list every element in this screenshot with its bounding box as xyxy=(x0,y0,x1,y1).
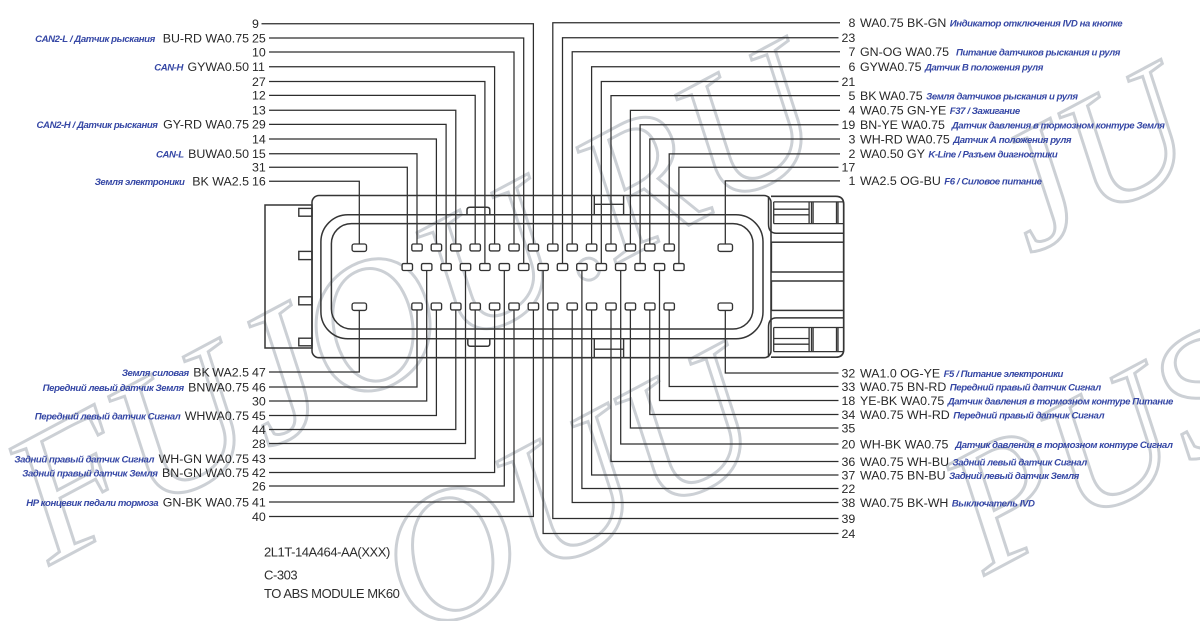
svg-text:CAN-H: CAN-H xyxy=(154,63,184,74)
svg-text:21: 21 xyxy=(842,75,856,89)
svg-text:2L1T-14A464-AA(XXX): 2L1T-14A464-AA(XXX) xyxy=(264,545,390,560)
wire pin 22 xyxy=(582,271,839,489)
svg-text:14: 14 xyxy=(252,132,266,146)
svg-text:GN-OG WA0.75: GN-OG WA0.75 xyxy=(860,45,949,59)
svg-text:17: 17 xyxy=(842,161,856,175)
wire pin 40 xyxy=(269,310,533,516)
wire pin 42 xyxy=(269,310,495,472)
wire pin 12 xyxy=(269,95,475,244)
wire pin 28 xyxy=(269,271,466,444)
wire pin 43 xyxy=(269,310,475,458)
pin 18 xyxy=(654,264,664,271)
svg-text:CAN2-L / Датчик рыскания: CAN2-L / Датчик рыскания xyxy=(35,34,155,45)
wire pin 31 xyxy=(269,167,407,263)
svg-text:35: 35 xyxy=(842,421,856,435)
svg-text:HP концевик педали тормоза: HP концевик педали тормоза xyxy=(26,498,159,509)
right latch bottom box 1 xyxy=(774,328,809,352)
pin 29 xyxy=(441,264,451,271)
wire pin 25 xyxy=(269,38,524,264)
pin 17 xyxy=(674,264,684,271)
left block tab 1 xyxy=(299,208,312,216)
wire pin 6 xyxy=(592,67,840,244)
wire pin 21 xyxy=(601,82,838,264)
svg-text:44: 44 xyxy=(252,423,266,437)
svg-text:Задний левый датчик Сигнал: Задний левый датчик Сигнал xyxy=(953,457,1088,468)
pin 38 xyxy=(567,303,577,310)
svg-text:GYWA0.50: GYWA0.50 xyxy=(187,60,249,74)
svg-text:20: 20 xyxy=(842,437,856,451)
top bridge key xyxy=(594,196,623,215)
pin 13 xyxy=(451,244,461,251)
svg-text:43: 43 xyxy=(252,452,266,466)
right latch top box 2 xyxy=(812,202,839,224)
svg-text:8: 8 xyxy=(849,16,856,30)
wire pin 3 xyxy=(650,139,840,244)
pin 20 xyxy=(616,264,626,271)
svg-text:WA0.75 BK-GN: WA0.75 BK-GN xyxy=(860,16,946,30)
wire pin 36 xyxy=(611,310,839,461)
wire pin 1 xyxy=(725,181,840,244)
svg-text:15: 15 xyxy=(252,147,266,161)
wire pin 32 xyxy=(725,310,838,373)
right latch bottom band inner xyxy=(774,328,844,352)
svg-text:Земля датчиков рыскания и руля: Земля датчиков рыскания и руля xyxy=(926,91,1078,102)
pin 35 xyxy=(625,303,635,310)
svg-text:WA0.75 GN-YE: WA0.75 GN-YE xyxy=(860,104,946,118)
connector C-303 left keying block xyxy=(265,205,312,348)
svg-text:25: 25 xyxy=(252,31,266,45)
svg-text:Передний правый датчик Сигнал: Передний правый датчик Сигнал xyxy=(950,382,1101,393)
svg-text:F37 / Зажигание: F37 / Зажигание xyxy=(950,106,1021,117)
pin 7 xyxy=(567,244,577,251)
wire pin 46 xyxy=(269,310,417,387)
svg-text:30: 30 xyxy=(252,394,266,408)
pin 15 xyxy=(412,244,422,251)
pin 39 xyxy=(548,303,558,310)
svg-text:Датчик давления в тормозном ко: Датчик давления в тормозном контуре Земл… xyxy=(951,121,1165,132)
wire pin 26 xyxy=(269,271,504,486)
pin 28 xyxy=(460,264,470,271)
svg-text:19: 19 xyxy=(842,118,856,132)
svg-text:WA0.75 WH-BU: WA0.75 WH-BU xyxy=(860,455,949,469)
svg-text:BK WA0.75: BK WA0.75 xyxy=(860,89,923,103)
svg-text:Питание датчиков рыскания и ру: Питание датчиков рыскания и руля xyxy=(956,48,1121,59)
wire pin 34 xyxy=(650,310,839,414)
svg-text:BU-RD WA0.75: BU-RD WA0.75 xyxy=(163,31,249,45)
svg-text:Передний левый датчик Земля: Передний левый датчик Земля xyxy=(43,383,185,394)
svg-text:WH-GN WA0.75: WH-GN WA0.75 xyxy=(159,452,250,466)
wire pin 17 xyxy=(679,167,839,263)
pin 12 xyxy=(470,244,480,251)
pin 26 xyxy=(499,264,509,271)
wire pin 15 xyxy=(269,154,417,244)
svg-text:27: 27 xyxy=(252,75,266,89)
svg-text:37: 37 xyxy=(842,468,856,482)
pin 21 xyxy=(596,264,606,271)
svg-text:TO ABS MODULE MK60: TO ABS MODULE MK60 xyxy=(264,586,400,601)
svg-text:F5 / Питание электроники: F5 / Питание электроники xyxy=(944,369,1064,380)
svg-text:C-303: C-303 xyxy=(264,568,297,583)
wire pin 11 xyxy=(269,67,495,244)
svg-text:23: 23 xyxy=(842,31,856,45)
wire pin 9 xyxy=(262,24,534,244)
pin 41 xyxy=(509,303,519,310)
wire pin 13 xyxy=(269,110,456,244)
svg-text:Задний левый датчик Земля: Задний левый датчик Земля xyxy=(949,471,1080,482)
left block tab 2 xyxy=(299,251,312,259)
pin 36 xyxy=(606,303,616,310)
right latch top band left edge xyxy=(769,196,844,233)
pin 2 xyxy=(664,244,674,251)
wire pin 37 xyxy=(592,310,839,475)
svg-text:13: 13 xyxy=(252,104,266,118)
svg-text:32: 32 xyxy=(842,366,856,380)
wire pin 24 xyxy=(543,271,838,534)
svg-text:F6 / Силовое питание: F6 / Силовое питание xyxy=(944,177,1042,188)
svg-text:BK WA2.5: BK WA2.5 xyxy=(193,365,249,379)
svg-text:BNWA0.75: BNWA0.75 xyxy=(188,380,249,394)
pin 11 xyxy=(489,244,499,251)
wire pin 10 xyxy=(269,52,514,244)
pin 34 xyxy=(645,303,655,310)
svg-text:2: 2 xyxy=(849,147,856,161)
svg-text:Передний правый датчик Сигнал: Передний правый датчик Сигнал xyxy=(953,410,1104,421)
svg-text:WH-RD WA0.75: WH-RD WA0.75 xyxy=(860,132,950,146)
pin 4 xyxy=(625,244,635,251)
pin 33 xyxy=(664,303,674,310)
pin 31 xyxy=(402,264,412,271)
pin 32 xyxy=(718,303,732,310)
svg-text:BN-GN WA0.75: BN-GN WA0.75 xyxy=(162,466,249,480)
svg-text:47: 47 xyxy=(252,365,266,379)
right latch slot 2 xyxy=(771,281,843,310)
pin 22 xyxy=(577,264,587,271)
svg-text:Задний правый датчик Сигнал: Задний правый датчик Сигнал xyxy=(14,454,154,465)
wire pin 47 xyxy=(269,310,359,372)
wire pin 44 xyxy=(269,310,456,429)
left block tab 4 xyxy=(299,338,312,346)
svg-text:BN-YE WA0.75: BN-YE WA0.75 xyxy=(860,118,945,132)
svg-text:Датчик давления в тормозном ко: Датчик давления в тормозном контуре Пита… xyxy=(947,396,1174,407)
pin 24 xyxy=(538,264,548,271)
svg-text:YE-BK WA0.75: YE-BK WA0.75 xyxy=(860,394,944,408)
wire pin 39 xyxy=(553,310,839,518)
svg-text:12: 12 xyxy=(252,89,266,103)
svg-text:Передний левый датчик Сигнал: Передний левый датчик Сигнал xyxy=(35,411,181,422)
wire pin 38 xyxy=(572,310,838,502)
svg-text:WA0.50 GY: WA0.50 GY xyxy=(860,147,925,161)
wire pin 35 xyxy=(630,310,838,428)
pin 19 xyxy=(635,264,645,271)
pin 44 xyxy=(451,303,461,310)
svg-text:BUWA0.50: BUWA0.50 xyxy=(188,147,249,161)
wire pin 20 xyxy=(621,271,839,444)
svg-text:Датчик А положения руля: Датчик А положения руля xyxy=(952,135,1072,146)
svg-text:Земля силовая: Земля силовая xyxy=(122,368,190,379)
svg-text:CAN-L: CAN-L xyxy=(156,150,184,161)
pin 40 xyxy=(528,303,538,310)
svg-text:Индикатор отключения IVD на кн: Индикатор отключения IVD на кнопке xyxy=(950,19,1123,30)
right latch outline xyxy=(771,196,844,357)
svg-text:34: 34 xyxy=(842,408,856,422)
svg-text:6: 6 xyxy=(849,60,856,74)
svg-text:45: 45 xyxy=(252,409,266,423)
pin 3 xyxy=(645,244,655,251)
svg-text:7: 7 xyxy=(849,45,856,59)
right latch bottom box 2 xyxy=(812,328,839,352)
svg-text:GYWA0.75: GYWA0.75 xyxy=(860,60,922,74)
wire pin 18 xyxy=(660,271,839,401)
svg-text:WA0.75 BN-BU: WA0.75 BN-BU xyxy=(860,468,946,482)
connector cavity outer xyxy=(321,215,763,339)
svg-text:WH-BK WA0.75: WH-BK WA0.75 xyxy=(860,437,948,451)
svg-text:GY-RD WA0.75: GY-RD WA0.75 xyxy=(163,118,249,132)
svg-text:41: 41 xyxy=(252,495,266,509)
pin 27 xyxy=(480,264,490,271)
left block tab 3 xyxy=(299,297,312,305)
svg-text:22: 22 xyxy=(842,482,856,496)
wire pin 45 xyxy=(269,310,436,415)
svg-text:38: 38 xyxy=(842,496,856,510)
svg-text:18: 18 xyxy=(842,394,856,408)
svg-text:WA0.75 BK-WH: WA0.75 BK-WH xyxy=(860,496,948,510)
svg-text:40: 40 xyxy=(252,510,266,524)
svg-text:GN-BK WA0.75: GN-BK WA0.75 xyxy=(163,495,249,509)
wire pin 27 xyxy=(269,82,485,264)
pin 42 xyxy=(489,303,499,310)
svg-text:WA0.75 BN-RD: WA0.75 BN-RD xyxy=(860,380,946,394)
svg-text:BK WA2.5: BK WA2.5 xyxy=(192,175,249,189)
wire pin 2 xyxy=(669,154,840,244)
pin 45 xyxy=(431,303,441,310)
svg-text:WHWA0.75: WHWA0.75 xyxy=(185,409,249,423)
svg-text:Выключатель IVD: Выключатель IVD xyxy=(952,498,1035,509)
svg-text:WA1.0 OG-YE: WA1.0 OG-YE xyxy=(860,366,940,380)
pin 43 xyxy=(470,303,480,310)
wire pin 19 xyxy=(640,125,838,264)
wire pin 16 xyxy=(269,181,359,244)
pin 25 xyxy=(519,264,529,271)
wire pin 41 xyxy=(269,310,514,502)
svg-text:24: 24 xyxy=(842,527,856,541)
svg-text:WA2.5 OG-BU: WA2.5 OG-BU xyxy=(860,174,941,188)
svg-text:Датчик давления в тормозном ко: Датчик давления в тормозном контуре Сигн… xyxy=(954,440,1173,451)
pin 14 xyxy=(431,244,441,251)
wire pin 33 xyxy=(669,310,838,386)
cavity top key bump xyxy=(467,207,490,215)
svg-text:29: 29 xyxy=(252,118,266,132)
svg-text:4: 4 xyxy=(849,104,856,118)
wire pin 7 xyxy=(572,52,840,244)
pin 6 xyxy=(586,244,596,251)
svg-text:1: 1 xyxy=(849,174,856,188)
wire pin 23 xyxy=(563,38,839,264)
wire pin 30 xyxy=(269,271,427,401)
pin 30 xyxy=(422,264,432,271)
pin 16 xyxy=(352,244,366,251)
wire pin 29 xyxy=(269,124,446,263)
right latch top box 1 xyxy=(774,202,809,224)
svg-text:Земля электроники: Земля электроники xyxy=(95,177,185,188)
svg-text:9: 9 xyxy=(252,17,259,31)
right latch bottom band left edge xyxy=(769,318,844,357)
bottom bridge key xyxy=(594,339,623,358)
pin 23 xyxy=(557,264,567,271)
svg-text:K-Line / Разъем диагностики: K-Line / Разъем диагностики xyxy=(928,150,1057,161)
svg-text:Датчик В положения руля: Датчик В положения руля xyxy=(924,63,1044,74)
right latch top band inner xyxy=(774,202,844,224)
svg-text:26: 26 xyxy=(252,479,266,493)
cavity bottom key bump xyxy=(468,339,490,347)
wire pin 5 xyxy=(611,96,840,244)
right latch slot 1 xyxy=(771,242,843,272)
svg-text:33: 33 xyxy=(842,380,856,394)
svg-text:39: 39 xyxy=(842,512,856,526)
svg-text:CAN2-H / Датчик рыскания: CAN2-H / Датчик рыскания xyxy=(37,120,159,131)
pin 10 xyxy=(509,244,519,251)
wire pin 4 xyxy=(630,110,840,244)
svg-text:Задний правый датчик Земля: Задний правый датчик Земля xyxy=(22,468,158,479)
pin 5 xyxy=(606,244,616,251)
pin 37 xyxy=(586,303,596,310)
connector cavity inner xyxy=(331,224,753,329)
svg-text:28: 28 xyxy=(252,437,266,451)
svg-text:42: 42 xyxy=(252,466,266,480)
svg-text:16: 16 xyxy=(252,175,266,189)
svg-text:WA0.75 WH-RD: WA0.75 WH-RD xyxy=(860,408,950,422)
wire pin 14 xyxy=(269,139,436,244)
connector body outline xyxy=(312,196,771,358)
svg-text:3: 3 xyxy=(849,132,856,146)
svg-text:31: 31 xyxy=(252,161,266,175)
wire pin 8 xyxy=(553,23,840,244)
pin 1 xyxy=(718,244,732,251)
pin 47 xyxy=(352,303,366,310)
pin 8 xyxy=(548,244,558,251)
pin 9 xyxy=(528,244,538,251)
svg-text:11: 11 xyxy=(252,60,265,74)
pin 46 xyxy=(412,303,422,310)
svg-text:46: 46 xyxy=(252,380,266,394)
svg-text:36: 36 xyxy=(842,455,856,469)
svg-text:10: 10 xyxy=(252,45,266,59)
svg-text:5: 5 xyxy=(849,89,856,103)
